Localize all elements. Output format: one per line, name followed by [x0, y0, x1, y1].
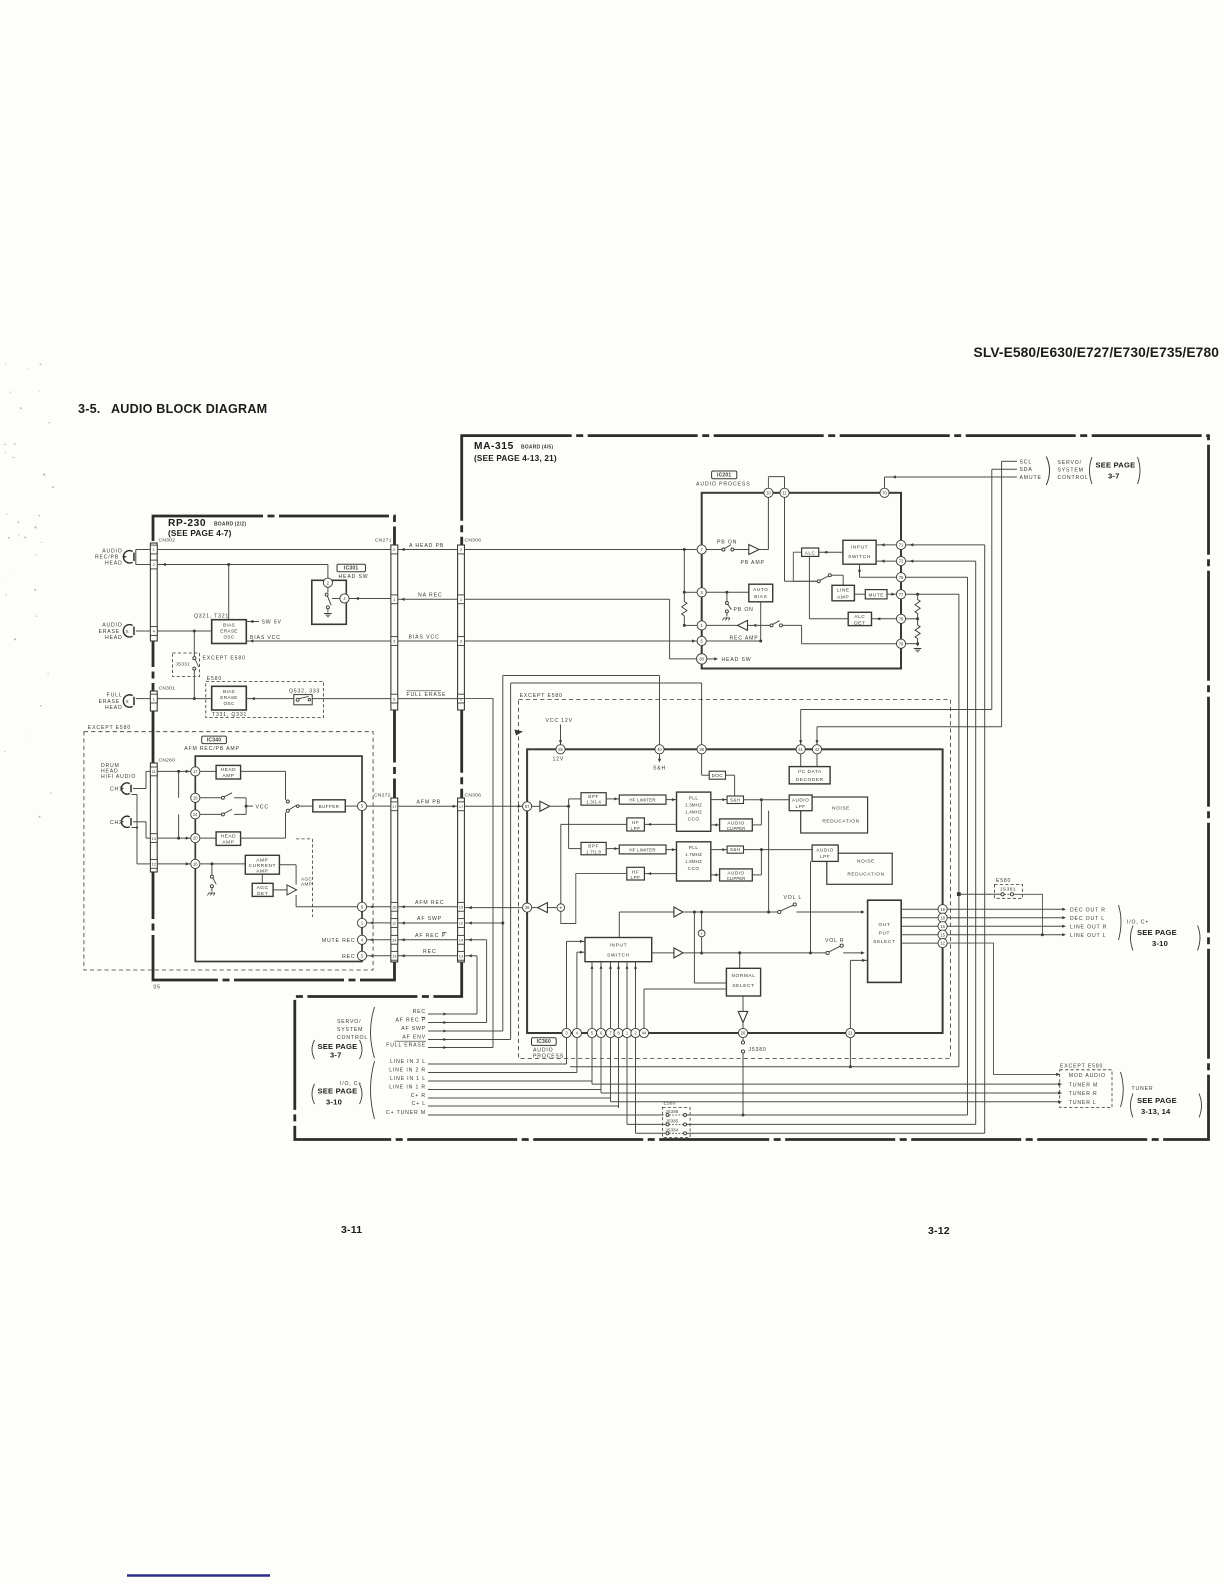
- svg-text:PLL: PLL: [689, 845, 699, 850]
- svg-text:LINE OUT L: LINE OUT L: [1070, 933, 1106, 939]
- BPF 1.3/1.4: [581, 793, 606, 806]
- wires pins 41 42 to I2C decoder: [800, 754, 802, 767]
- svg-text:BIAS VCC: BIAS VCC: [250, 635, 281, 641]
- svg-text:3-7: 3-7: [1108, 471, 1120, 480]
- svg-text:JS331: JS331: [176, 662, 190, 667]
- svg-text:SWITCH: SWITCH: [848, 554, 871, 560]
- svg-text:LINE IN 1 L: LINE IN 1 L: [390, 1076, 426, 1082]
- wire AGC amp to pin 9: [295, 895, 297, 907]
- AGC det: [252, 883, 273, 896]
- svg-text:EXCEPT E580: EXCEPT E580: [203, 656, 246, 662]
- wire amp current amp to AGC amp: [279, 864, 296, 866]
- wire REC row to CN306: [447, 1013, 477, 1015]
- noise reducation 1: [801, 797, 868, 833]
- svg-text:17: 17: [193, 769, 198, 774]
- svg-text:S&H: S&H: [730, 847, 741, 852]
- buffer L: [674, 907, 683, 917]
- wire JS381 to bus: [959, 893, 1001, 895]
- IC360 pin 57: [523, 802, 532, 811]
- svg-text:14: 14: [392, 938, 397, 943]
- wire pin 12 to MOD AUDIO: [947, 943, 1058, 1074]
- switch at pin 24: [200, 813, 221, 815]
- svg-text:CLIPPER: CLIPPER: [727, 826, 745, 831]
- svg-text:FULL ERASE: FULL ERASE: [407, 692, 447, 698]
- svg-text:CH2: CH2: [110, 820, 123, 826]
- svg-text:SEE PAGE: SEE PAGE: [1137, 1096, 1177, 1105]
- svg-text:13: 13: [459, 954, 464, 959]
- wire SW 5V input: [246, 621, 259, 623]
- wire buffer to pin 5: [345, 805, 357, 807]
- svg-text:SEE PAGE: SEE PAGE: [318, 1087, 358, 1096]
- svg-text:SERVO/: SERVO/: [1058, 460, 1082, 466]
- wire BIAS VCC to pin 5: [465, 640, 698, 642]
- svg-text:12: 12: [940, 941, 945, 946]
- svg-text:REC: REC: [423, 949, 437, 955]
- svg-text:24: 24: [193, 812, 198, 817]
- audio LPF 2: [812, 845, 838, 861]
- jumper JS331 wire: [193, 631, 195, 657]
- svg-text:AFM REC: AFM REC: [415, 900, 444, 906]
- svg-text:AFM REC/PB AMP: AFM REC/PB AMP: [184, 746, 240, 752]
- IC360 pin 55: [556, 745, 565, 754]
- wire AF REC out: [465, 939, 487, 941]
- svg-text:LINE OUT R: LINE OUT R: [1070, 924, 1107, 930]
- svg-text:MA-315: MA-315: [474, 441, 514, 452]
- wire VOL R to output select: [843, 952, 863, 954]
- wire pin 3 to input switch: [566, 941, 568, 1028]
- svg-text:REC: REC: [413, 1009, 426, 1015]
- wire pin 3 to LINE IN 2 L: [566, 1038, 568, 1064]
- IC340 pin 16: [191, 859, 200, 868]
- svg-text:3-10: 3-10: [326, 1098, 342, 1107]
- IC340 pin 20: [191, 834, 200, 843]
- switch PB ON at pin 3: [726, 592, 728, 601]
- wire pin 16 to amp current amp: [200, 863, 245, 865]
- svg-text:16: 16: [940, 924, 945, 929]
- IC340 pin 24: [191, 810, 200, 819]
- svg-text:14: 14: [459, 938, 464, 943]
- connector CN260: [150, 763, 157, 872]
- label IC301 HEAD SW: [337, 564, 366, 572]
- svg-text:AMP: AMP: [837, 594, 849, 600]
- wire AF REC: [398, 939, 458, 941]
- svg-text:ERASE: ERASE: [220, 629, 237, 634]
- HF LPF 2: [627, 867, 645, 880]
- wire full erase head to CN301: [136, 698, 151, 700]
- wire bus pin 71: [906, 544, 985, 546]
- wire pin 1 to JS385 row: [626, 1038, 628, 1125]
- full erase head: [123, 695, 132, 707]
- IC340 pin 1 AF SWP in: [357, 918, 366, 927]
- svg-text:AMP: AMP: [256, 857, 268, 863]
- resistor pin 7 to pin 1: [683, 550, 685, 602]
- svg-text:NOISE: NOISE: [832, 806, 850, 812]
- wire JS385 row: [627, 1123, 666, 1125]
- svg-text:PROCESS: PROCESS: [533, 1053, 564, 1059]
- wire pin 3 node: [706, 591, 749, 593]
- svg-text:SLV-E580/E630/E727/E730/E735/E: SLV-E580/E630/E727/E730/E735/E780: [974, 345, 1220, 360]
- wire loop pins 10-11: [767, 477, 769, 489]
- wire erase head to bias osc: [157, 630, 212, 632]
- wire SDA: [992, 468, 1017, 470]
- wire SDA to IC360 pin 41: [991, 469, 993, 709]
- svg-text:CLIPPER: CLIPPER: [727, 876, 745, 881]
- wire AF ENV row: [447, 1039, 511, 1041]
- wire head amp 2 output: [241, 837, 286, 839]
- normal select: [726, 968, 760, 996]
- wire PLL2 to S&H2: [711, 849, 727, 851]
- wire erase head to CN302 pin 4: [136, 630, 151, 632]
- audio rec/pb head: [123, 551, 132, 563]
- line amp: [832, 585, 854, 601]
- svg-text:REC: REC: [342, 954, 355, 960]
- connector CN302: [150, 543, 157, 641]
- drum head CH1: [121, 783, 129, 794]
- IC201 AUDIO PROCESS box: [702, 493, 901, 669]
- svg-text:MUTE REC: MUTE REC: [322, 938, 356, 944]
- wire to normal select left: [693, 912, 695, 983]
- brace I/O rows: [371, 1061, 375, 1119]
- svg-text:PB ON: PB ON: [717, 540, 737, 546]
- svg-text:EXCEPT E580: EXCEPT E580: [520, 693, 563, 699]
- svg-text:BIAS: BIAS: [754, 594, 767, 600]
- svg-text:LPF: LPF: [796, 804, 806, 809]
- svg-text:RP-230: RP-230: [168, 518, 206, 529]
- jumper box JS386 JS385 JS384: [662, 1108, 690, 1138]
- svg-text:18: 18: [193, 795, 198, 800]
- IC360 AUDIO PROCESS box: [527, 749, 943, 1033]
- wire pin 44 to normal select: [644, 988, 726, 990]
- svg-text:79: 79: [899, 641, 904, 646]
- svg-text:OUT: OUT: [878, 922, 890, 928]
- svg-text:AUDIO: AUDIO: [727, 821, 744, 826]
- wire head amp 1 output: [241, 770, 286, 772]
- svg-text:AUDIO: AUDIO: [102, 623, 122, 629]
- wire to IC360 pin 38: [511, 682, 702, 684]
- svg-text:AUTO: AUTO: [753, 587, 768, 593]
- svg-text:CCO: CCO: [688, 816, 700, 821]
- svg-text:J5380: J5380: [749, 1047, 767, 1053]
- junction node on audio path: [698, 930, 705, 937]
- svg-text:LPF: LPF: [631, 875, 641, 880]
- input switch (IC360): [585, 938, 652, 962]
- svg-text:CONTROL: CONTROL: [337, 1035, 368, 1041]
- wire PLL to HF LPF: [644, 823, 676, 825]
- connector CN306 lower: [458, 798, 465, 962]
- label SEE PAGE 3-10 right: [1131, 926, 1134, 951]
- svg-text:C+ L: C+ L: [412, 1101, 426, 1107]
- svg-text:S&H: S&H: [730, 797, 741, 802]
- svg-text:AMP: AMP: [222, 773, 234, 779]
- svg-text:12: 12: [152, 862, 157, 867]
- PLL 1.3MHZ 1.4MHZ CCO: [677, 792, 711, 831]
- svg-text:20: 20: [741, 1031, 746, 1036]
- svg-text:IC201: IC201: [717, 473, 731, 479]
- S&H 2: [727, 846, 743, 853]
- IC201 right pins 71 73 76 77 78 79: [896, 540, 905, 549]
- svg-text:HF LIMITER: HF LIMITER: [629, 847, 655, 852]
- svg-text:AF SWP: AF SWP: [401, 1026, 426, 1032]
- wire pin 11 to line amp switch: [784, 497, 786, 581]
- bias erase osc Q321 T321: [212, 620, 247, 644]
- svg-text:BIAS: BIAS: [223, 689, 235, 694]
- head amp CH1: [216, 765, 241, 779]
- IC340 pin 17: [191, 767, 200, 776]
- svg-text:(SEE PAGE 4-7): (SEE PAGE 4-7): [168, 529, 232, 538]
- svg-text:LPF: LPF: [631, 826, 641, 831]
- svg-text:LINE: LINE: [837, 588, 850, 594]
- brace I/O C+ group: [1119, 905, 1122, 940]
- wire REC: [398, 955, 458, 957]
- svg-text:76: 76: [899, 575, 904, 580]
- wire pin 71 to input switch: [876, 544, 896, 546]
- svg-text:LINE IN 2 R: LINE IN 2 R: [389, 1068, 426, 1074]
- wire BIAS VCC to CN271 pin 3: [246, 640, 391, 642]
- svg-text:HEAD SW: HEAD SW: [339, 574, 369, 580]
- wire S&H2 to audio LPF2: [744, 849, 813, 851]
- AFM REC amp: [538, 903, 548, 913]
- svg-text:ERASE: ERASE: [220, 695, 237, 700]
- label SEE PAGE 3-13 14: [1131, 1094, 1134, 1118]
- wire A HEAD PB to pin 7: [465, 549, 698, 551]
- sum node: [557, 904, 565, 912]
- svg-text:HF: HF: [632, 869, 639, 874]
- wire audio LPF1 to VOL L path: [768, 811, 770, 912]
- svg-text:1.7MHZ: 1.7MHZ: [685, 852, 702, 857]
- svg-text:1.4MHZ: 1.4MHZ: [685, 809, 702, 814]
- mute switch at pin 16: [210, 875, 213, 878]
- S&H 1: [727, 796, 743, 804]
- input switch (IC201): [843, 540, 876, 564]
- wire AFM REC: [398, 906, 458, 908]
- wire A HEAD PB: [398, 549, 458, 551]
- BPF 1.7/1.8: [581, 842, 606, 854]
- wire PB amp to pin 10: [759, 549, 768, 551]
- svg-text:DET: DET: [257, 891, 268, 897]
- wire NA REC to pin 80: [465, 598, 670, 600]
- svg-text:BPF: BPF: [588, 844, 599, 849]
- switch VOL R: [826, 951, 829, 954]
- amp at pin 57: [540, 801, 550, 811]
- svg-text:CN306: CN306: [465, 538, 482, 544]
- svg-text:DEC OUT L: DEC OUT L: [1070, 916, 1105, 922]
- PLL 1.7MHZ 1.8MHZ CCO: [677, 842, 711, 881]
- line amp input switch: [817, 580, 820, 583]
- wire TUNER L: [611, 1101, 1061, 1103]
- svg-text:55: 55: [558, 747, 563, 752]
- HF LPF 1: [627, 818, 645, 831]
- svg-text:78: 78: [899, 616, 904, 621]
- svg-text:HEAD: HEAD: [105, 705, 122, 711]
- svg-text:AUDIO: AUDIO: [816, 847, 833, 852]
- head switch IC301: [312, 580, 347, 624]
- svg-text:BOARD (4/5): BOARD (4/5): [521, 445, 553, 451]
- svg-text:+: +: [700, 932, 703, 937]
- svg-text:A HEAD PB: A HEAD PB: [409, 543, 444, 549]
- svg-text:DET: DET: [854, 620, 865, 626]
- wire pin 36 AFM REC out: [465, 907, 523, 909]
- svg-text:IC340: IC340: [207, 737, 221, 743]
- svg-text:AMUTE: AMUTE: [1020, 475, 1042, 481]
- svg-text:E580: E580: [996, 878, 1011, 884]
- board outline MA-315: [295, 436, 1209, 1140]
- svg-text:SW 5V: SW 5V: [262, 620, 282, 626]
- wire CH1 to CN260 pin 11: [133, 788, 146, 790]
- svg-text:REDUCATION: REDUCATION: [822, 819, 859, 825]
- svg-text:3-13, 14: 3-13, 14: [1141, 1107, 1171, 1116]
- audio clipper 1: [720, 819, 753, 831]
- svg-text:CONTROL: CONTROL: [1058, 475, 1089, 481]
- svg-text:SDA: SDA: [1020, 467, 1033, 473]
- switch at pin 18: [200, 797, 221, 799]
- svg-text:ALC: ALC: [854, 614, 865, 620]
- svg-text:20: 20: [193, 836, 198, 841]
- wire FULL ERASE row: [447, 1047, 493, 1049]
- svg-text:SEE PAGE: SEE PAGE: [1096, 460, 1136, 469]
- wire DEC OUT L: [947, 917, 1064, 919]
- svg-text:DEC OUT R: DEC OUT R: [1070, 907, 1106, 913]
- svg-text:PB ON: PB ON: [734, 607, 754, 613]
- DOC: [709, 771, 725, 779]
- wires pins to input switch: [591, 962, 593, 1029]
- bus vertical pin 73: [975, 561, 977, 1124]
- svg-text:CURRENT: CURRENT: [249, 863, 276, 869]
- svg-text:+: +: [559, 906, 562, 912]
- wire AF SWP row to CN306: [447, 1030, 503, 1032]
- svg-text:70: 70: [882, 490, 887, 495]
- svg-text:ALC: ALC: [805, 550, 816, 555]
- wire drum head common to CN260 pin 12: [132, 794, 138, 796]
- wire input switch top to VOL L path: [618, 912, 620, 938]
- svg-text:57: 57: [525, 804, 530, 809]
- noise reducation 2: [827, 853, 892, 884]
- svg-text:40: 40: [657, 747, 662, 752]
- svg-text:AUDIO BLOCK DIAGRAM: AUDIO BLOCK DIAGRAM: [111, 402, 267, 416]
- IC360 right pins 19 18 16 15 12: [901, 908, 938, 910]
- wire pin 4 to input switch: [576, 952, 578, 1028]
- svg-text:I/O, C+: I/O, C+: [1127, 919, 1149, 925]
- svg-text:HEAD: HEAD: [221, 834, 237, 840]
- wire HEAD SW out of pin 80: [706, 658, 716, 660]
- svg-text:AUDIO PROCESS: AUDIO PROCESS: [696, 481, 751, 487]
- svg-text:BOARD (2/2): BOARD (2/2): [214, 522, 246, 528]
- wire rec amp input switch: [753, 624, 757, 627]
- bias erase osc T331 Q331: [212, 686, 247, 710]
- IC340 AFM REC/PB AMP box: [195, 756, 362, 961]
- buffer R: [674, 948, 683, 958]
- connector CN301: [150, 691, 157, 711]
- svg-text:MOD AUDIO: MOD AUDIO: [1069, 1073, 1106, 1079]
- wire pin 77 node: [906, 593, 959, 595]
- resistor R pin78-ground: [915, 625, 920, 639]
- wire VOL L to output select: [796, 911, 863, 913]
- wire JS384 row: [636, 1132, 667, 1134]
- svg-text:17: 17: [392, 804, 397, 809]
- svg-text:C+ TUNER M: C+ TUNER M: [386, 1110, 426, 1116]
- svg-text:SELECT: SELECT: [873, 939, 895, 945]
- wire pin 21 down: [849, 1038, 851, 1067]
- jumper JS381: [994, 885, 1022, 899]
- resistor R pin77-pin78: [915, 600, 920, 614]
- svg-text:C+ R: C+ R: [411, 1093, 426, 1099]
- svg-text:IC360: IC360: [537, 1039, 551, 1045]
- svg-text:HEAD: HEAD: [221, 767, 237, 773]
- wire BPF to HF limiter: [606, 798, 619, 800]
- svg-text:12: 12: [459, 921, 464, 926]
- svg-text:(SEE PAGE 4-13, 21): (SEE PAGE 4-13, 21): [474, 454, 557, 463]
- svg-text:AF REC P: AF REC P: [395, 1018, 426, 1024]
- wire pin 1 to rec amp: [706, 624, 737, 626]
- ALC det: [848, 612, 871, 625]
- svg-text:HEAD: HEAD: [105, 561, 122, 567]
- svg-text:CN271: CN271: [375, 538, 392, 544]
- wire ALC det to ALC: [809, 618, 848, 620]
- svg-text:SYSTEM: SYSTEM: [1058, 468, 1084, 474]
- svg-text:3-10: 3-10: [1152, 939, 1168, 948]
- svg-text:3-7: 3-7: [330, 1051, 342, 1060]
- svg-text:VCC 12V: VCC 12V: [546, 718, 573, 724]
- wire pin 78 to ALC det: [872, 618, 897, 620]
- audio clipper 2: [720, 869, 753, 881]
- ground at resistor chain: [914, 648, 922, 650]
- wire TUNER M: [592, 1083, 1060, 1085]
- wire amp to BPF node: [550, 805, 569, 807]
- svg-text:SWITCH: SWITCH: [607, 953, 630, 959]
- svg-text:DOC: DOC: [712, 773, 724, 778]
- connector CN306 upper: [458, 545, 465, 710]
- svg-text:BUFFER: BUFFER: [319, 804, 340, 809]
- wire DEC OUT R: [947, 908, 1064, 910]
- wire TUNER R: [601, 1092, 1060, 1094]
- svg-text:CCO: CCO: [688, 866, 700, 871]
- wire ALC to line amp switch: [793, 552, 817, 581]
- wire REC out: [465, 955, 478, 957]
- svg-text:I²C DATA: I²C DATA: [798, 769, 822, 775]
- wire SCL to IC360 pin 42: [1001, 461, 1003, 726]
- wire pin 57 to amp: [532, 805, 540, 807]
- wire SCL: [1002, 460, 1017, 462]
- IC340 pin 4 MUTE REC in: [357, 935, 366, 944]
- wire FULL ERASE vertical: [492, 699, 494, 1048]
- svg-text:SELECT: SELECT: [732, 983, 754, 989]
- svg-text:15: 15: [392, 905, 397, 910]
- rec amp: [738, 620, 748, 630]
- svg-text:PUT: PUT: [879, 930, 890, 936]
- wire A HEAD PB (RP-230): [157, 549, 391, 551]
- svg-text:EXCEPT E580: EXCEPT E580: [88, 725, 131, 731]
- svg-text:CN306: CN306: [465, 793, 482, 799]
- wire mute to pin 77: [887, 593, 896, 595]
- IC340 pin 5: [357, 802, 366, 811]
- svg-text:HEAD SW: HEAD SW: [722, 657, 752, 663]
- svg-text:CN272: CN272: [374, 793, 391, 799]
- wire CN260 pin 13 to IC340 pin 20: [157, 837, 191, 839]
- svg-text:REC AMP: REC AMP: [730, 635, 759, 641]
- IC301 pins 2 and 4: [323, 578, 332, 587]
- svg-text:E580: E580: [207, 676, 222, 682]
- svg-text:Q532, 333: Q532, 333: [289, 689, 320, 695]
- node VCC: [245, 798, 247, 815]
- svg-text:S&H: S&H: [653, 766, 666, 772]
- svg-text:CH1: CH1: [110, 787, 123, 793]
- connector CN272: [391, 798, 398, 962]
- bus vertical pin 76: [967, 577, 969, 1115]
- wire AF REC vertical: [486, 940, 488, 1023]
- head amp CH2: [216, 832, 241, 846]
- audio LPF 1: [789, 795, 812, 811]
- svg-text:HIFI AUDIO: HIFI AUDIO: [101, 774, 136, 780]
- svg-text:TUNER: TUNER: [1132, 1086, 1154, 1092]
